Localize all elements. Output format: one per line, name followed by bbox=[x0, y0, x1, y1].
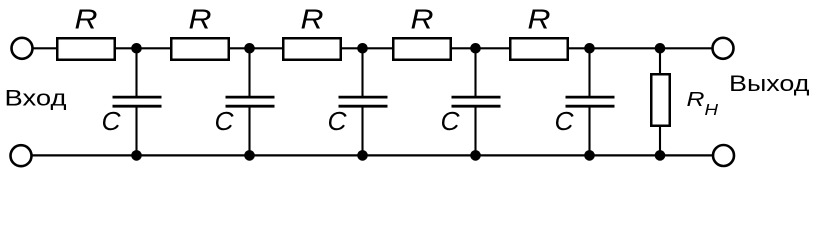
svg-text:C: C bbox=[441, 106, 460, 136]
wire node 5 to node 6 bbox=[590, 47, 661, 49]
svg-text:Выход: Выход bbox=[729, 71, 810, 96]
svg-text:Н: Н bbox=[705, 102, 719, 119]
wire R5 to node 5 bbox=[568, 47, 590, 49]
svg-text:R: R bbox=[411, 4, 434, 35]
capacitor C3 plates bbox=[339, 96, 388, 99]
bottom node 2 junction dot bbox=[244, 150, 255, 161]
svg-text:R: R bbox=[301, 4, 324, 35]
wire input to R1 bbox=[33, 47, 58, 49]
wire node 2 to R3 bbox=[250, 47, 285, 49]
svg-text:R: R bbox=[528, 4, 551, 35]
resistor R4 bbox=[393, 38, 451, 60]
bottom node 5 junction dot bbox=[584, 150, 595, 161]
node 1 junction dot bbox=[131, 43, 142, 54]
node 5 junction dot bbox=[584, 43, 595, 54]
wire R1 to node 1 bbox=[115, 47, 137, 49]
load resistor Rn body bbox=[651, 74, 670, 126]
wire node 4 to R5 bbox=[476, 47, 512, 49]
bottom node 6 junction dot bbox=[655, 150, 666, 161]
input terminal (bottom-left) bbox=[11, 145, 32, 166]
capacitor C5 plates bbox=[566, 96, 615, 99]
wire node 3 to R4 bbox=[363, 47, 395, 49]
capacitor C5 bottom lead bbox=[588, 107, 590, 156]
node 6 junction dot (load tap) bbox=[655, 43, 666, 54]
bottom node 3 junction dot bbox=[357, 150, 368, 161]
capacitor C1 bottom lead bbox=[135, 107, 137, 156]
node 4 junction dot bbox=[470, 43, 481, 54]
svg-text:C: C bbox=[555, 106, 574, 136]
svg-text:C: C bbox=[328, 106, 347, 136]
capacitor C5 top lead bbox=[588, 48, 590, 96]
svg-text:C: C bbox=[102, 106, 121, 136]
output terminal (top-right) bbox=[713, 38, 734, 59]
resistor R1 bbox=[57, 38, 115, 60]
svg-text:R: R bbox=[687, 89, 705, 111]
capacitor C2 top lead bbox=[248, 48, 250, 96]
wire node 6 to output terminal bbox=[660, 47, 713, 49]
svg-text:R: R bbox=[75, 4, 98, 35]
capacitor C2 plates bbox=[226, 96, 275, 99]
node 2 junction dot bbox=[244, 43, 255, 54]
capacitor C4 bottom lead bbox=[474, 107, 476, 156]
input terminal (top-left) bbox=[12, 38, 33, 59]
wire R4 to node 4 bbox=[451, 47, 476, 49]
bottom node 1 junction dot bbox=[131, 150, 142, 161]
wire node 1 to R2 bbox=[137, 47, 172, 49]
svg-text:R: R bbox=[189, 4, 212, 35]
load resistor Rn bottom lead bbox=[659, 126, 661, 155]
capacitor C2 bottom lead bbox=[248, 107, 250, 156]
bottom node 4 junction dot bbox=[470, 150, 481, 161]
wire R3 to node 3 bbox=[341, 47, 363, 49]
output terminal (bottom-right) bbox=[713, 145, 734, 166]
bottom rail wire bbox=[32, 154, 713, 156]
capacitor C3 top lead bbox=[361, 48, 363, 96]
wire R2 to node 2 bbox=[229, 47, 250, 49]
capacitor C4 top lead bbox=[474, 48, 476, 96]
capacitor C4 plates bbox=[452, 96, 501, 99]
resistor R3 bbox=[283, 38, 341, 60]
capacitor C3 bottom lead bbox=[361, 107, 363, 156]
resistor R2 bbox=[171, 38, 229, 60]
svg-text:Вход: Вход bbox=[5, 86, 67, 111]
resistor R5 bbox=[510, 38, 568, 60]
load resistor Rn top lead bbox=[659, 48, 661, 74]
capacitor C1 top lead bbox=[135, 48, 137, 96]
node 3 junction dot bbox=[357, 43, 368, 54]
capacitor C1 plates bbox=[113, 96, 162, 99]
svg-text:C: C bbox=[215, 106, 234, 136]
